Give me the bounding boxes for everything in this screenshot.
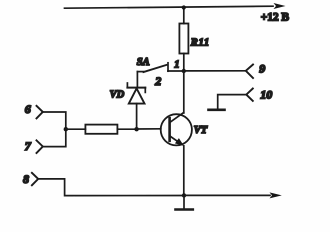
terminal 10 chevron [246,89,253,101]
svg-text:8: 8 [23,172,29,186]
svg-text:+12 В: +12 В [261,12,290,24]
junction dot 6/7 node [64,127,68,131]
svg-text:10: 10 [260,88,272,102]
svg-text:2: 2 [154,74,161,88]
wire terminal 6 to node [43,112,66,129]
wire collector to node 1 [183,72,185,113]
arrowhead top rail [274,3,286,9]
contact bar for terminal 10 [209,109,225,112]
wire terminal 7 to node [43,129,66,146]
wire R11 bottom lead to node 1 [183,54,185,72]
node 1 junction dot [182,69,186,73]
svg-text:VD: VD [110,90,125,101]
arrowhead bottom rail [270,192,282,198]
wire terminal 8 to bottom rail [38,179,184,196]
wire diode node to transistor base [137,128,161,130]
svg-text:6: 6 [25,102,31,116]
terminal 9 chevron [246,65,253,79]
wire R11 top lead [183,8,185,24]
svg-text:9: 9 [259,61,265,75]
terminal 7 chevron [37,140,43,153]
terminal 6 chevron [37,106,43,119]
resistor R11 [179,24,188,54]
zener diode VD [127,83,145,129]
transistor VT [161,113,192,146]
junction dot top rail / R11 [182,5,186,9]
wire terminal 10 to contact [218,95,247,110]
switch SA [137,63,183,88]
bottom junction dot [182,193,186,197]
wire bottom rail [184,194,270,196]
terminal 8 chevron [32,173,38,186]
wire node to base resistor [66,128,86,130]
wire emitter down [183,146,185,196]
wire node 1 to terminal 9 [185,70,246,72]
svg-text:R11: R11 [190,37,210,48]
svg-text:7: 7 [25,139,32,153]
svg-text:SA: SA [137,57,150,68]
wire resistor to diode node [117,128,136,130]
ground stub [183,195,185,208]
base resistor [85,125,117,134]
svg-text:1: 1 [174,59,179,70]
wire top +12V rail [65,6,274,8]
svg-text:VT: VT [194,125,208,136]
ground bar [176,208,193,211]
junction dot diode/base [134,127,138,131]
